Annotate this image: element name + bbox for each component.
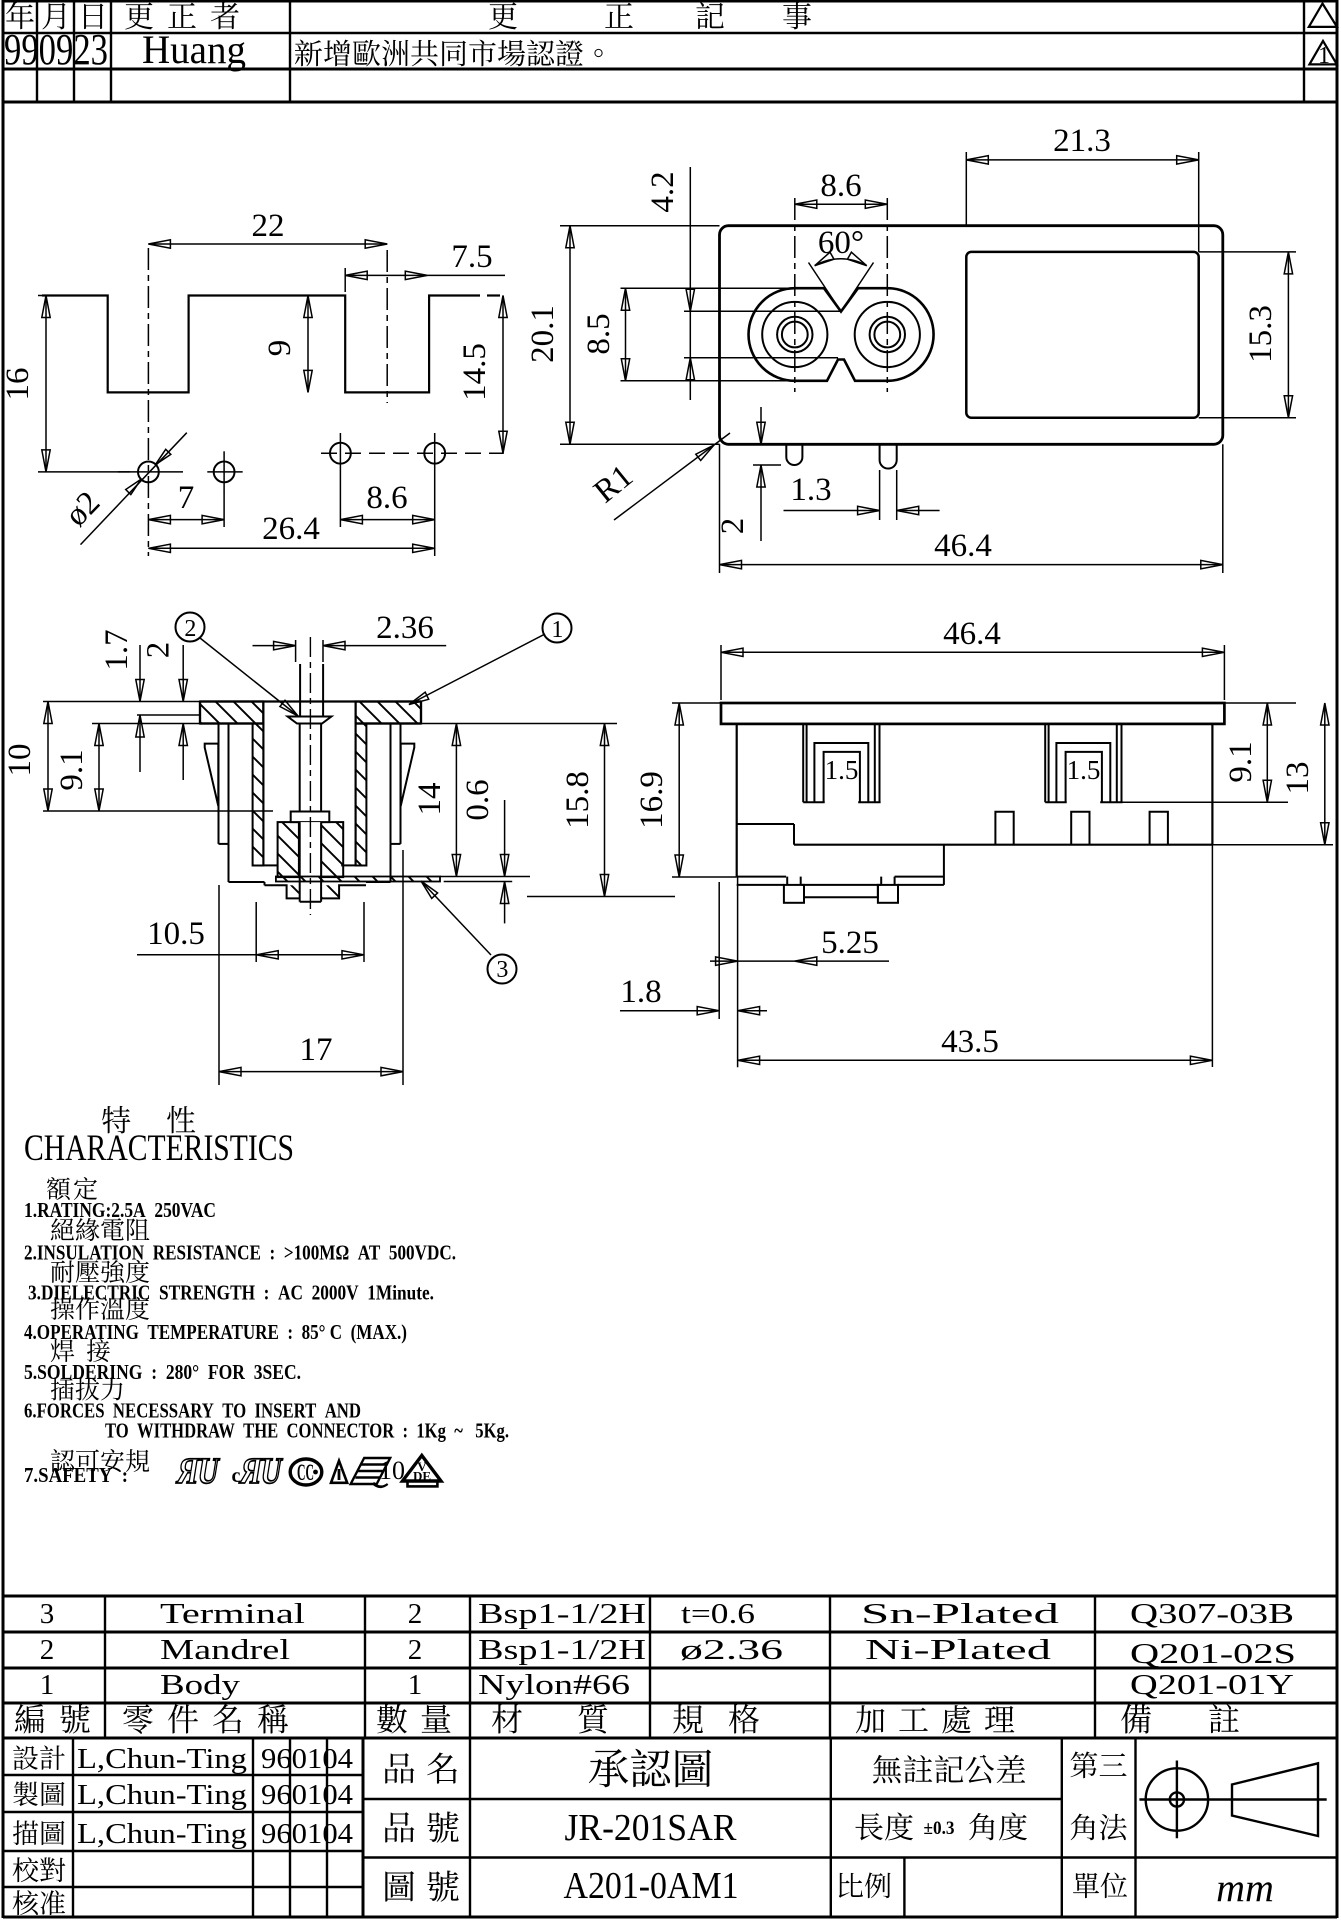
svg-text:7.SAFETY :: 7.SAFETY : [24,1463,128,1487]
svg-text:14.5: 14.5 [457,343,493,401]
svg-text:1.3: 1.3 [790,472,831,508]
dim 2 front [760,407,762,444]
side channel L wall left [802,724,804,802]
section recess line 1.7 [137,714,200,716]
side between-feet block [804,885,878,897]
section shelf bottom right [366,881,391,883]
centerline notch2 [386,250,388,403]
svg-text:Nylon#66: Nylon#66 [478,1669,630,1701]
svg-text:17: 17 [300,1032,333,1068]
side channel L staple [814,743,868,802]
svg-text:1: 1 [551,617,563,643]
side base plate bottom left [737,884,784,886]
mount hole B [214,462,235,483]
side foot right [878,885,898,903]
svg-text:8.6: 8.6 [366,480,407,516]
dim 1.3 [879,470,881,520]
svg-text:Mandrel: Mandrel [160,1634,290,1666]
svg-text:Terminal: Terminal [160,1598,305,1630]
parts header CJK [15,1704,44,1734]
mount hole D [424,443,445,464]
dim 15.3 [1199,251,1296,253]
dim 8.5 [625,288,627,381]
svg-text:4.OPERATING TEMPERATURE : 8: 4.OPERATING TEMPERATURE : 85° C (MAX.) [24,1320,407,1344]
svg-text:16.9: 16.9 [634,771,670,829]
item7 CJK 認可安規 [51,1449,74,1472]
projection symbol crosshair [1139,1798,1326,1800]
svg-text:2: 2 [408,1598,423,1630]
pin R ring 1 [855,302,920,367]
side body bottom main [794,844,1212,846]
svg-text:8.6: 8.6 [820,168,861,204]
svg-text:1.8: 1.8 [620,974,661,1010]
svg-text:Q201-02S: Q201-02S [1130,1638,1296,1670]
angle dim 60 [809,263,842,312]
mandrel column [299,664,301,717]
section shelf bottom left [229,881,265,883]
title block grid [3,1774,363,1776]
item4 CJK 操作溫度 [51,1297,74,1320]
title cell 單位 [1073,1873,1099,1898]
section cavity wall right line [355,702,357,865]
svg-text:10.5: 10.5 [147,916,205,952]
side flange bar [721,703,1224,724]
title value 承認圖 [589,1749,628,1787]
mandrel washer [291,812,330,823]
svg-text:±0.3: ±0.3 [924,1818,955,1839]
side notch 2 [1071,812,1089,845]
svg-text:5.25: 5.25 [821,925,879,961]
dim 7 [148,519,224,521]
svg-text:ЯU: ЯU [174,1451,221,1492]
side channel R staple [1056,743,1110,802]
section barb left [205,744,219,806]
side channel R wall left [1044,724,1046,802]
side base plate mid [802,884,881,886]
svg-text:15.8: 15.8 [560,771,596,829]
dim 8.6 front [795,203,888,205]
svg-text:Sn-Plated: Sn-Plated [861,1598,1060,1630]
svg-text:mm: mm [1216,1865,1274,1910]
dim 20.1 [560,225,720,227]
svg-text:1.7: 1.7 [99,629,135,670]
revision row 1 note [295,39,322,66]
side body step top [737,823,794,825]
svg-text:15.3: 15.3 [1243,305,1279,363]
logo EK mark [350,1458,395,1487]
dim 43.5 [738,1059,1213,1061]
svg-text:Ni-Plated: Ni-Plated [865,1634,1052,1666]
svg-text:3: 3 [496,957,508,983]
section cavity floor left [263,864,277,866]
svg-text:2: 2 [408,1634,423,1666]
terminal plate hatched [276,877,440,882]
svg-text:14: 14 [412,783,448,816]
svg-text:L,Chun-Ting: L,Chun-Ting [77,1819,247,1850]
dim 16 [38,295,100,297]
svg-text:9: 9 [262,340,298,357]
svg-text:2: 2 [141,642,177,659]
svg-text:46.4: 46.4 [934,528,992,564]
side body right edge [1211,724,1213,845]
dim 9.1 side [1224,702,1296,704]
projection symbol frustum [1232,1763,1318,1836]
svg-text:1.5: 1.5 [1067,755,1101,785]
page border frame [3,0,1337,3]
section ext line flange bottom left [92,723,200,725]
svg-text:2: 2 [184,616,196,642]
svg-text:3.DIELECTRIC STRENGTH : AC: 3.DIELECTRIC STRENGTH : AC 2000V 1Minute… [28,1281,434,1305]
title CJK 特性 [102,1106,130,1134]
line 4.2 top [684,310,841,312]
pin R ring 3 [874,322,900,348]
dim 7.5 [345,274,427,276]
title row 描圖 [13,1820,38,1845]
callout circle 3 [488,955,517,984]
svg-text:Bsp1-1/2H: Bsp1-1/2H [478,1598,646,1630]
side base plate right edge [943,845,945,885]
line 4.2 bottom [684,357,838,359]
title row 設計 [13,1746,38,1771]
svg-text:9.1: 9.1 [54,749,90,790]
svg-text:1.RATING:2.5A 250VAC: 1.RATING:2.5A 250VAC [24,1198,216,1222]
dim 14.5 [502,296,504,454]
svg-text:16: 16 [0,368,36,401]
section boss right hatched [321,822,343,877]
title cell 角法 [1071,1814,1095,1841]
dim 13 [1212,844,1333,846]
dim 5.25 [718,882,720,1019]
dim 9.1 section [98,724,100,812]
dim 10 [47,702,49,812]
side body step vertical [793,824,795,845]
side base plate top right [895,876,944,878]
svg-text:CC: CC [297,1460,314,1485]
dim 46.4 front [719,444,721,573]
logo triangle mark [331,1461,347,1483]
section barb right [401,744,415,806]
svg-text:990923: 990923 [4,25,108,74]
item3 CJK 耐壓強度 [51,1260,74,1283]
dim 0.6 [440,876,530,878]
svg-text:960104: 960104 [261,1780,353,1811]
section flange top line [200,700,421,702]
svg-text:2.36: 2.36 [376,610,434,646]
revision table header text [6,1,34,29]
dim 2 section [182,645,184,702]
svg-text:t=0.6: t=0.6 [681,1598,755,1630]
dim 9 [307,296,309,393]
side body left edge [736,724,738,877]
callout circle 1 [543,614,572,643]
svg-text:L,Chun-Ting: L,Chun-Ting [77,1744,247,1775]
section flange left edge [199,702,201,724]
section flange right edge [420,702,422,724]
side base plate bottom right [898,884,944,886]
parts table grid [3,1595,1337,1598]
mount pin left [786,444,802,465]
svg-text:ø2.36: ø2.36 [680,1634,783,1666]
section outer wall right lower [390,844,392,882]
section boss left hatched [278,822,299,877]
title cell 圖號 [385,1871,414,1902]
section bottom bracket [287,885,299,898]
front view body [720,226,1223,445]
dim 46.4 side [720,645,722,700]
logo VDE triangle [403,1456,442,1482]
revision table grid [3,32,1337,34]
svg-text:7.5: 7.5 [451,239,492,275]
mount hole C [330,443,351,464]
dim 8.6 cutout [340,519,434,521]
item2 CJK 絕緣電阻 [51,1218,74,1240]
section cavity wall left line [262,702,264,865]
section flange bottom left [200,722,263,724]
svg-text:CHARACTERISTICS: CHARACTERISTICS [24,1128,294,1169]
side foot left [784,885,804,903]
side channel L floor [803,801,825,803]
callout circle 2 [176,613,205,642]
svg-text:46.4: 46.4 [943,616,1001,652]
title cell 品號 [385,1812,414,1842]
centerline notch1 [147,248,149,556]
item1 CJK 額定 [47,1177,70,1200]
svg-text:2.INSULATION RESISTANCE : >: 2.INSULATION RESISTANCE : >100MΩ AT 500V… [24,1241,456,1265]
svg-text:20.1: 20.1 [525,305,561,363]
title row 校對 [13,1857,39,1882]
svg-text:2: 2 [40,1634,55,1666]
svg-text:4.2: 4.2 [645,171,681,212]
dim 14 [419,723,617,725]
svg-text:10: 10 [2,744,38,777]
mandrel centerline [309,637,311,915]
svg-text:3: 3 [40,1598,55,1630]
svg-text:26.4: 26.4 [262,511,320,547]
svg-text:22: 22 [252,208,285,244]
title cell 長度角度 [855,1813,882,1840]
side notch 3 [1150,812,1168,845]
dim 26.4 [148,547,434,549]
svg-text:13: 13 [1280,762,1316,795]
section flange hatched right [356,702,421,724]
svg-text:ЯU: ЯU [237,1451,284,1492]
side base plate top left [737,876,786,878]
section flange bottom right [356,722,421,724]
svg-text:60°: 60° [818,225,864,261]
section outer wall left [218,724,220,844]
dim 2.36 [253,645,296,647]
svg-text:2: 2 [715,518,751,535]
leader R1 [614,433,730,520]
svg-text:Huang: Huang [142,27,246,72]
title cell 品名 [385,1753,414,1783]
svg-text:7: 7 [178,480,195,516]
section cavity wall left inner hatched [253,724,264,866]
dim 4.2 [689,167,691,400]
revision symbol triangle 1 [1309,41,1337,65]
svg-text:1: 1 [408,1669,423,1701]
svg-text:JR-201SAR: JR-201SAR [565,1807,738,1849]
dim 17 [218,885,220,1085]
title row 核准 [13,1890,38,1915]
svg-text:9.1: 9.1 [1223,741,1259,782]
section ext line flange top left [43,701,200,703]
panel cutout outline [42,296,480,393]
svg-text:Q307-03B: Q307-03B [1130,1598,1294,1630]
dim 1.8 [620,1010,718,1012]
svg-text:21.3: 21.3 [1053,123,1111,159]
dim 10.5 [255,902,257,962]
svg-text:960104: 960104 [261,1819,353,1850]
side channel R wall right [1116,724,1118,802]
svg-text:Body: Body [160,1669,241,1701]
pin L ring 2 [777,317,812,352]
dim 1.7 [139,645,141,702]
mandrel lower shaft [300,822,321,902]
svg-text:8.5: 8.5 [581,313,617,354]
side channel L wall right [874,724,876,802]
title cell 第三 [1071,1751,1098,1778]
section outer wall left lower [228,844,230,882]
pin L ring 3 [782,322,808,348]
dim 16.9 [672,702,721,704]
svg-text:TO WITHDRAW THE CONNECTOR: TO WITHDRAW THE CONNECTOR : 1Kg ~ 5Kg. [105,1419,509,1443]
mount hole A [138,462,159,483]
svg-text:L,Chun-Ting: L,Chun-Ting [77,1780,247,1811]
section cavity floor right [341,864,355,866]
projection symbol circle [1146,1768,1208,1830]
svg-text:43.5: 43.5 [941,1024,999,1060]
svg-text:Q201-01Y: Q201-01Y [1130,1669,1294,1701]
svg-text:1: 1 [40,1669,55,1701]
socket figure-8 outline [749,288,934,381]
svg-text:A201-0AM1: A201-0AM1 [564,1865,739,1907]
pin R ring 2 [870,317,905,352]
side notch 1 [995,812,1013,845]
dim 15.8 [527,896,675,898]
mandrel shaft [299,724,301,812]
panel cutout top edge dash end [487,294,500,296]
mandrel head [288,717,332,724]
section bottom bracket left edge [264,882,266,885]
title row 製圖 [13,1781,37,1806]
item6 CJK 插拔力 [51,1378,74,1401]
svg-text:1.5: 1.5 [825,755,859,785]
svg-text:0.6: 0.6 [460,779,496,820]
front view window recess [966,252,1198,418]
section cavity wall right inner hatched [356,724,367,866]
dim 22 [148,243,387,245]
logo UL recognized [174,1451,221,1492]
pin L centerline [794,198,796,392]
item5 CJK 焊接 [51,1339,74,1362]
title cell 無註記公差 [873,1755,901,1784]
section ext line 10 bottom [43,810,273,812]
pin L ring 1 [762,302,827,367]
svg-text:960104: 960104 [261,1744,353,1775]
title cell 比例 [839,1873,863,1898]
mandrel upper column [295,640,297,662]
dim 21.3 [966,159,1198,161]
section outer wall right [390,724,392,844]
line 8.5 top [621,287,795,289]
line 8.5 bottom [621,380,795,382]
pin R centerline [886,198,888,392]
svg-text:1: 1 [1318,43,1330,69]
leader phi2 [81,433,187,545]
section flange hatched left [200,702,263,724]
hole CD center dash line [321,452,504,454]
svg-text:Bsp1-1/2H: Bsp1-1/2H [478,1634,646,1666]
revision symbol triangle blank [1309,4,1337,27]
mount pin right [880,444,897,468]
logo CCC ellipse [290,1459,322,1485]
side channel R floor [1045,801,1067,803]
